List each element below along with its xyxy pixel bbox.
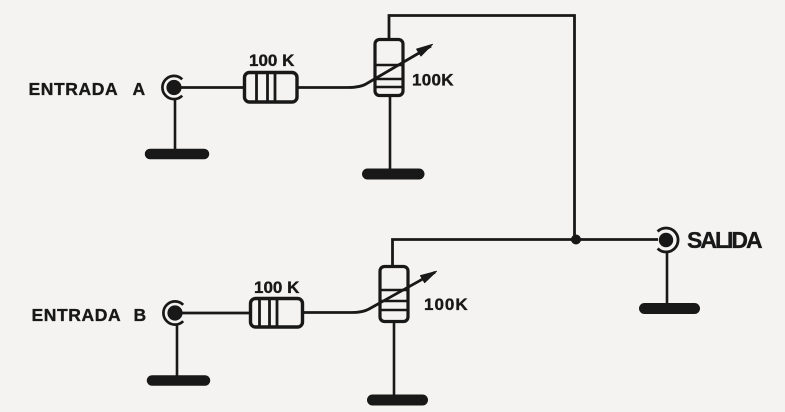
wire J3 to ground	[666, 251, 669, 305]
ground (under J1)	[150, 149, 204, 160]
resistor R1	[245, 73, 298, 103]
wire P1 top to output drop (top bus)	[389, 16, 575, 238]
wire P1 to ground	[389, 95, 392, 169]
potentiometer P2	[380, 267, 408, 322]
ground (under P1)	[368, 169, 420, 180]
label ENTRADA A	[29, 79, 146, 99]
wire P2 to ground	[393, 321, 396, 396]
ground (under J2)	[152, 375, 205, 386]
wire R2 to P2 wiper with arrow	[302, 271, 437, 312]
wire J2 to R2	[180, 312, 250, 315]
wire J2 to ground	[176, 324, 179, 377]
jack J2 (ENTRADA B connector)	[163, 301, 183, 324]
junction node (output bus)	[571, 235, 581, 245]
svg-text:100K: 100K	[412, 71, 454, 90]
ground (under P2)	[373, 395, 423, 406]
wire J1 to ground	[174, 98, 177, 150]
svg-text:A: A	[133, 79, 146, 99]
wire P2 top to output bus	[393, 240, 659, 268]
svg-text:100 K: 100 K	[254, 278, 300, 297]
svg-text:100 K: 100 K	[249, 51, 295, 70]
jack J3 (SALIDA connector)	[658, 228, 678, 252]
wire R1 to P1 wiper with arrow	[297, 44, 433, 87]
svg-text:ENTRADA: ENTRADA	[32, 305, 122, 325]
svg-text:B: B	[134, 305, 147, 325]
svg-text:ENTRADA: ENTRADA	[29, 79, 119, 99]
ground (under J3)	[645, 303, 695, 314]
potentiometer P1	[375, 40, 403, 96]
label ENTRADA B	[32, 305, 147, 325]
svg-text:SALIDA: SALIDA	[687, 227, 762, 253]
wire J1 to R1	[179, 86, 244, 89]
svg-text:100K: 100K	[424, 295, 469, 314]
jack J1 (ENTRADA A connector)	[162, 76, 182, 99]
resistor R2	[251, 299, 303, 328]
